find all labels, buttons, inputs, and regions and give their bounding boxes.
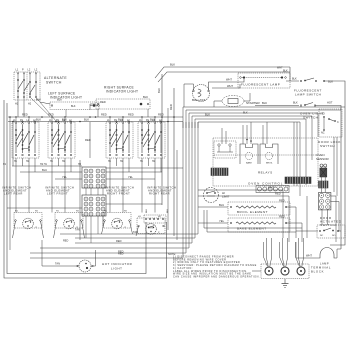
svg-text:INDICATOR LIGHT: INDICATOR LIGHT	[50, 96, 82, 100]
svg-text:WHT: WHT	[227, 84, 233, 88]
svg-text:RIGHT FRONT: RIGHT FRONT	[107, 192, 130, 196]
right surface indicator light DS2 (dashed box with lamp)	[90, 95, 150, 117]
svg-text:RED: RED	[158, 113, 164, 117]
wires sensor to connector	[321, 167, 323, 168]
surface element E (dashed circle)	[55, 211, 83, 229]
svg-text:H2: H2	[35, 211, 39, 213]
svg-text:C: C	[337, 121, 339, 124]
svg-text:INDICATOR LIGHT: INDICATOR LIGHT	[106, 90, 138, 94]
wire WHT to elements	[198, 189, 283, 191]
svg-text:LEFT FRONT: LEFT FRONT	[47, 192, 68, 196]
starter (dashed ellipse)	[214, 93, 261, 107]
infinite switch SW3 (dashed box)	[106, 120, 133, 163]
svg-text:RIGHT REAR: RIGHT REAR	[149, 192, 170, 196]
svg-text:TAN: TAN	[55, 262, 60, 266]
svg-text:WHT: WHT	[306, 254, 312, 258]
svg-text:BLK: BLK	[36, 98, 41, 102]
oven sensor connector (hatched)	[319, 181, 329, 188]
broil element R-broil (dashed box with zigzag)	[228, 202, 290, 215]
fluorescent lamp DS3 (dashed box)	[238, 67, 290, 89]
oven control internal dashed line	[214, 154, 317, 156]
left surface indicator light DS1 (dashed box with lamp)	[50, 102, 99, 110]
svg-text:CAN CAUSE IMPROPER AND DANGERO: CAN CAUSE IMPROPER AND DANGEROUS OPERATI…	[173, 275, 260, 278]
svg-text:BLK: BLK	[57, 98, 62, 102]
wire relay feeds	[222, 122, 267, 144]
relay K2 BROIL	[260, 144, 278, 164]
svg-text:LEFT REAR: LEFT REAR	[4, 192, 23, 196]
hi-limit thermostat (dashed circle)	[204, 188, 230, 203]
wire bundle nested rectangles	[183, 107, 345, 196]
surface element E4 (dashed circle)	[137, 216, 165, 234]
svg-text:LIMIT: LIMIT	[222, 195, 230, 199]
wire vertical 177	[176, 150, 178, 240]
svg-text:ALTERNATE: ALTERNATE	[44, 76, 67, 80]
svg-text:OVEN CONTROL: OVEN CONTROL	[248, 182, 283, 186]
door actuated switch S5	[296, 216, 345, 238]
svg-text:RED: RED	[169, 104, 173, 110]
svg-text:BLK: BLK	[84, 118, 89, 122]
svg-text:H1: H1	[15, 211, 19, 213]
wire bus-to-switch drops	[16, 117, 161, 123]
svg-text:BLK: BLK	[146, 208, 148, 213]
wire WHT ballast to lamp	[209, 79, 245, 91]
svg-text:LIGHT: LIGHT	[111, 266, 123, 270]
svg-text:L2: L2	[28, 69, 31, 72]
svg-text:SWITCH: SWITCH	[320, 144, 335, 148]
ballast B1 (dashed circle)	[184, 84, 210, 107]
wire element right drops	[283, 190, 302, 242]
ground symbol	[282, 279, 289, 288]
bake element R-bake (dashed box with zigzag)	[228, 218, 290, 232]
svg-text:RED: RED	[275, 192, 281, 196]
svg-text:RED: RED	[22, 113, 28, 117]
svg-text:H1: H1	[56, 211, 60, 213]
oven lamp DS5 (arc symbol)	[296, 242, 341, 266]
svg-text:BLK: BLK	[71, 105, 76, 108]
connector J2 (grid block)	[82, 195, 106, 216]
svg-text:WHT: WHT	[277, 67, 283, 70]
svg-text:BLK: BLK	[170, 63, 175, 67]
svg-text:RED: RED	[63, 240, 68, 243]
hot indicator light DS4 (dashed circle)	[77, 250, 96, 272]
infinite switch SW4 (dashed box)	[138, 120, 165, 163]
svg-text:P: P	[22, 69, 24, 72]
svg-text:RED: RED	[118, 252, 124, 256]
wire grid drops	[80, 160, 103, 243]
svg-text:HOT: HOT	[327, 101, 333, 105]
connector P1 pins	[256, 186, 289, 193]
svg-text:L2: L2	[35, 69, 38, 72]
svg-text:NC: NC	[320, 235, 324, 237]
wire BLK top feed	[155, 67, 290, 78]
infinite switch SW1 (dashed box)	[12, 120, 39, 163]
svg-text:BLK: BLK	[283, 70, 288, 73]
wires to terminal block	[264, 238, 304, 267]
wire bottom buses	[30, 227, 198, 259]
connector P2 (2x3 grid)	[319, 193, 331, 210]
svg-text:H2: H2	[158, 216, 162, 218]
svg-text:BLK: BLK	[293, 102, 298, 105]
relay K1 BAKE	[240, 144, 258, 164]
svg-text:H1: H1	[3, 163, 7, 166]
wire bottom pair to terminal block	[204, 210, 302, 232]
wire bundle vertical center	[183, 122, 198, 257]
svg-text:NO: NO	[332, 235, 336, 237]
svg-text:H2 H1: H2 H1	[40, 163, 47, 166]
wire vertical 307	[306, 196, 308, 238]
svg-text:BLK: BLK	[62, 118, 67, 122]
svg-text:BLU: BLU	[42, 168, 47, 172]
svg-text:BLOCK: BLOCK	[311, 270, 324, 274]
svg-text:RED: RED	[116, 239, 122, 243]
svg-text:TAN: TAN	[75, 229, 80, 232]
fluorescent lamp switch S2	[286, 67, 333, 97]
svg-text:BLU: BLU	[219, 203, 224, 207]
wire P2 drops	[322, 196, 339, 242]
svg-text:WHT: WHT	[268, 186, 274, 190]
svg-text:BLK: BLK	[157, 88, 161, 93]
surface element E (dashed circle)	[103, 211, 131, 229]
notes text block	[168, 252, 260, 278]
wire RED bus above switches	[8, 116, 183, 118]
svg-text:H1: H1	[138, 216, 142, 218]
wire BLK bus above switches	[8, 121, 183, 123]
svg-text:FLUORESCENT LAMP: FLUORESCENT LAMP	[241, 83, 280, 87]
svg-text:LAMP SWITCH: LAMP SWITCH	[295, 93, 321, 97]
oven light switch S3	[255, 101, 341, 250]
svg-text:BROIL: BROIL	[266, 163, 273, 165]
wire element diagonals	[13, 221, 139, 238]
oven sensor RT1	[320, 164, 327, 177]
svg-text:STARTER: STARTER	[246, 101, 261, 105]
svg-text:SWITCH: SWITCH	[46, 81, 62, 85]
svg-text:BALLAST: BALLAST	[192, 98, 205, 102]
wire WHT 2	[212, 84, 240, 88]
door lock switch S4 (dashed box)	[318, 109, 342, 148]
svg-text:BLK: BLK	[150, 118, 155, 122]
svg-text:RED: RED	[48, 113, 54, 117]
svg-text:NC: NC	[321, 132, 325, 135]
svg-text:H1: H1	[104, 211, 108, 213]
element P labels	[36, 227, 161, 234]
relay K0 (dashed enclosure)	[214, 141, 236, 158]
wire vertical 168	[167, 108, 169, 230]
wire H-bus row (BLU/YEL)	[7, 166, 183, 208]
svg-text:YEL: YEL	[219, 219, 225, 223]
surface element E (dashed circle)	[14, 211, 42, 229]
svg-text:BLK: BLK	[167, 208, 169, 213]
svg-text:RED: RED	[128, 113, 134, 117]
svg-text:RED: RED	[279, 215, 285, 219]
svg-text:BLK: BLK	[143, 95, 148, 99]
svg-text:BLK: BLK	[328, 80, 333, 84]
svg-text:TAN: TAN	[133, 230, 138, 234]
svg-text:BAKE: BAKE	[246, 162, 252, 165]
cabinet frame wires left/bottom	[4, 100, 167, 278]
svg-text:RELAYS: RELAYS	[258, 171, 273, 175]
svg-text:H2: H2	[124, 211, 128, 213]
connector P1 (hatched) on oven control	[285, 177, 311, 184]
wire alternate switch diagonals	[18, 98, 56, 121]
wire verticals to elements	[16, 158, 161, 213]
svg-text:RED: RED	[101, 113, 107, 117]
infinite switch SW2 (dashed box)	[48, 120, 75, 163]
svg-text:WHT: WHT	[226, 78, 232, 82]
oven control A1 (dashed box)	[213, 138, 318, 186]
resistor block (hatched) left of oven control	[211, 168, 228, 176]
wire top right corner	[324, 81, 345, 245]
svg-text:YEL: YEL	[62, 175, 67, 179]
svg-text:RED: RED	[100, 100, 106, 104]
svg-text:TAN: TAN	[148, 227, 153, 230]
svg-text:BLK: BLK	[262, 101, 267, 105]
svg-text:BLK: BLK	[292, 78, 297, 81]
svg-text:NO: NO	[321, 113, 325, 116]
connector J1 (grid block)	[82, 167, 106, 188]
svg-text:BROIL ELEMENT: BROIL ELEMENT	[237, 210, 268, 214]
svg-text:BAKE ELEMENT: BAKE ELEMENT	[237, 226, 267, 230]
svg-text:YEL: YEL	[128, 175, 133, 179]
bus junction terminals	[9, 116, 175, 122]
wire door lock drops	[333, 137, 335, 192]
alternate switch S1 (dashed enclosure with contacts)	[14, 69, 40, 106]
svg-text:BLK: BLK	[118, 118, 123, 122]
svg-text:H2: H2	[28, 103, 32, 106]
right rear element contact box	[144, 208, 169, 223]
svg-text:H2: H2	[78, 163, 82, 166]
svg-text:L1: L1	[16, 69, 19, 72]
svg-text:BLK: BLK	[36, 118, 41, 122]
svg-text:RED: RED	[279, 199, 285, 203]
svg-text:H2: H2	[76, 211, 80, 213]
terminal block TB1 (dashed box)	[252, 264, 331, 279]
